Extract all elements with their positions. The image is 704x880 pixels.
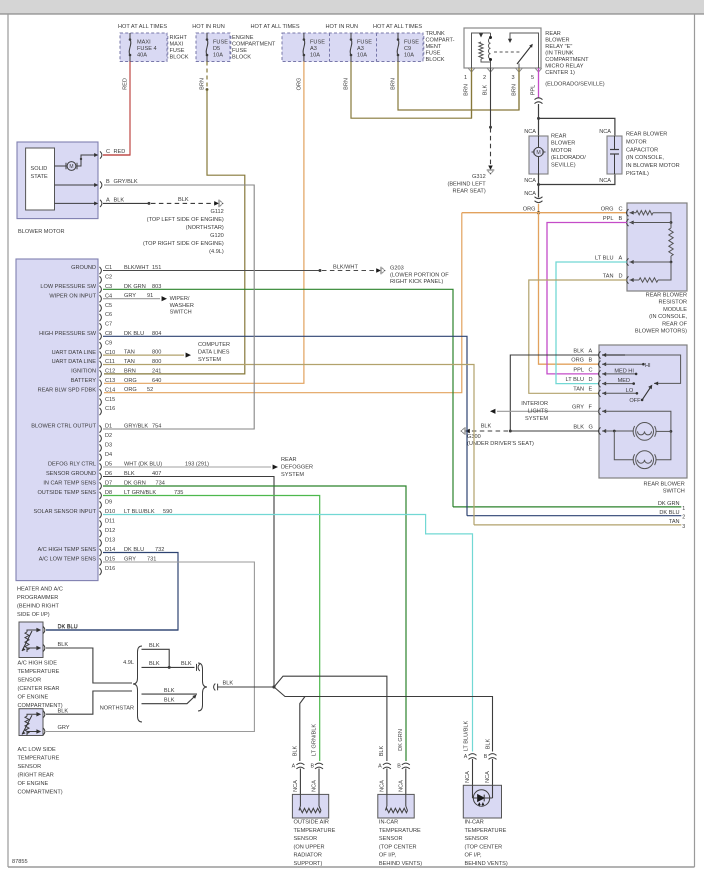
svg-text:HIGH PRESSURE SW: HIGH PRESSURE SW <box>39 331 97 337</box>
wire DK BLU C8 to connector 2 <box>103 336 467 515</box>
wire DK BLU to connector 2 <box>467 515 681 517</box>
switch pin G <box>599 427 601 434</box>
svg-text:A/C HIGH TEMP SENS: A/C HIGH TEMP SENS <box>37 547 96 553</box>
svg-text:C15: C15 <box>105 397 115 403</box>
svg-text:PPL: PPL <box>603 216 614 222</box>
svg-text:OF ENGINE: OF ENGINE <box>18 695 49 701</box>
module resistor C branch <box>630 212 637 214</box>
inline connector 4.9L <box>196 664 198 671</box>
svg-text:2: 2 <box>682 515 685 521</box>
wire TAN: module D to switch E <box>529 280 627 393</box>
svg-text:LO: LO <box>626 388 634 394</box>
motor symbol inside blower module <box>55 165 67 167</box>
svg-text:C: C <box>589 367 593 373</box>
switch pin C <box>599 370 601 377</box>
svg-text:C: C <box>106 149 110 155</box>
svg-text:RADIATOR: RADIATOR <box>294 853 322 859</box>
programmer pin C9 <box>100 342 102 349</box>
svg-text:TAN: TAN <box>603 274 614 280</box>
svg-text:PROGRAMMER: PROGRAMMER <box>17 595 58 601</box>
svg-text:DEFOG RLY CTRL: DEFOG RLY CTRL <box>48 462 96 468</box>
programmer pin D5 <box>100 463 102 470</box>
svg-text:C7: C7 <box>105 322 112 328</box>
svg-text:D3: D3 <box>105 443 112 449</box>
switch pin F <box>599 408 601 415</box>
svg-text:BRN: BRN <box>344 78 350 90</box>
svg-text:UART DATA LINE: UART DATA LINE <box>52 359 97 365</box>
wire BLK splice to in-car (solar) sensor pin B <box>274 687 493 752</box>
svg-text:NCA: NCA <box>599 129 611 135</box>
svg-text:IGNITION: IGNITION <box>71 369 96 375</box>
svg-text:NCA: NCA <box>398 780 404 792</box>
svg-text:(BEHIND LEFT: (BEHIND LEFT <box>447 182 486 188</box>
svg-text:DK BLU: DK BLU <box>58 624 78 630</box>
svg-text:3: 3 <box>511 75 514 81</box>
svg-text:NCA: NCA <box>380 780 386 792</box>
svg-text:PIGTAIL): PIGTAIL) <box>626 171 649 177</box>
wire BRN: fuse A3 (hot in run) to relay pin 1 <box>351 62 472 119</box>
svg-text:HOT AT ALL TIMES: HOT AT ALL TIMES <box>251 24 300 30</box>
module pin A <box>627 258 629 265</box>
svg-text:BATTERY: BATTERY <box>71 378 97 384</box>
programmer pin D2 <box>100 435 102 442</box>
svg-text:BLK: BLK <box>178 197 189 203</box>
svg-text:ORG: ORG <box>124 378 137 384</box>
svg-text:STATE: STATE <box>31 174 48 180</box>
svg-text:D16: D16 <box>105 566 115 572</box>
inline connector to splice, BLK <box>214 684 216 691</box>
inline connector below motor <box>535 197 543 199</box>
svg-text:BLOWER: BLOWER <box>545 38 569 44</box>
svg-text:LT BLU: LT BLU <box>566 377 584 383</box>
svg-text:BLK: BLK <box>164 697 175 703</box>
svg-text:(TOP LEFT SIDE OF ENGINE): (TOP LEFT SIDE OF ENGINE) <box>147 217 224 223</box>
svg-text:C12: C12 <box>105 369 115 375</box>
relay K1: REAR BLOWER RELAY "E" <box>464 28 541 68</box>
svg-text:LT GRN/BLK: LT GRN/BLK <box>312 724 318 756</box>
svg-text:BLK: BLK <box>149 661 160 667</box>
svg-text:GRY: GRY <box>58 725 70 731</box>
blower motor module box <box>17 142 98 219</box>
NORTHSTAR BLK branch lower merging <box>142 696 196 704</box>
svg-text:FUSE: FUSE <box>213 40 228 46</box>
wire TAN to connector 3 <box>474 524 681 526</box>
svg-text:NCA: NCA <box>465 771 471 783</box>
svg-text:BLOCK: BLOCK <box>170 55 189 61</box>
svg-text:DATA LINES: DATA LINES <box>198 350 230 356</box>
svg-text:A: A <box>292 764 296 770</box>
svg-text:G203: G203 <box>390 266 404 272</box>
svg-text:A: A <box>378 764 382 770</box>
svg-text:BLOCK: BLOCK <box>426 57 445 63</box>
wire BLK below motor, junction to capacitor bottom <box>538 174 540 198</box>
svg-text:(NORTHSTAR): (NORTHSTAR) <box>186 225 224 231</box>
svg-text:D5: D5 <box>213 46 220 52</box>
programmer pin C12 <box>100 370 102 377</box>
svg-text:BLK: BLK <box>223 680 234 686</box>
programmer pin D4 <box>100 454 102 461</box>
wire GRY D15 to A/C low side sensor <box>46 562 254 732</box>
svg-text:NCA: NCA <box>524 178 536 184</box>
svg-text:COMPARTMENT: COMPARTMENT <box>232 42 276 48</box>
svg-text:BLK: BLK <box>573 348 584 354</box>
svg-text:D13: D13 <box>105 538 115 544</box>
svg-text:DK GRN: DK GRN <box>398 729 404 751</box>
programmer pin C8 <box>100 333 102 340</box>
svg-text:BRN: BRN <box>200 78 206 90</box>
programmer pin C6 <box>100 314 102 321</box>
wire ORG: junction to resistor module pin C and down to C14 / switch B <box>539 212 628 214</box>
svg-text:C13: C13 <box>105 378 115 384</box>
svg-text:A: A <box>106 197 110 203</box>
svg-text:F: F <box>589 405 593 411</box>
fuse block 1: MAXI FUSE 4 40A (RIGHT MAXI FUSE BLOCK) <box>120 33 167 62</box>
programmer pin C7 <box>100 323 102 330</box>
svg-text:NCA: NCA <box>524 191 536 197</box>
svg-text:SENSOR GROUND: SENSOR GROUND <box>46 471 96 477</box>
programmer pin D10 <box>100 511 102 518</box>
wire BLK splice to in-car sensor pin A <box>274 676 387 761</box>
rear blower switch box <box>599 345 687 478</box>
svg-text:C16: C16 <box>105 406 115 412</box>
svg-text:241: 241 <box>152 368 161 374</box>
svg-text:B: B <box>310 764 314 770</box>
svg-text:FUSE: FUSE <box>357 40 372 46</box>
wire GRY C4 to wiper/washer switch <box>103 298 160 300</box>
switch pin A <box>599 351 601 358</box>
svg-text:(CENTER REAR: (CENTER REAR <box>18 686 60 692</box>
wire BLK high sensor to 4.9L/NORTHSTAR splice <box>46 648 132 683</box>
svg-text:SENSOR: SENSOR <box>465 836 489 842</box>
svg-text:CAPACITOR: CAPACITOR <box>626 147 658 153</box>
wire BRN relay pin 3 <box>518 68 520 110</box>
svg-text:G312: G312 <box>472 174 486 180</box>
svg-text:NCA: NCA <box>599 178 611 184</box>
wire BLK outside air sensor pin A <box>300 697 305 762</box>
svg-text:TAN: TAN <box>573 387 584 393</box>
switch pin F line to lamps node <box>602 411 671 431</box>
svg-text:TEMPERATURE: TEMPERATURE <box>18 669 60 675</box>
svg-text:(IN TRUNK: (IN TRUNK <box>545 51 573 57</box>
programmer pin D14 <box>100 549 102 556</box>
svg-text:87855: 87855 <box>12 859 28 865</box>
wire BRN: fuse D5 to programmer C12 (IGNITION) <box>206 62 208 88</box>
svg-text:GRY/BLK: GRY/BLK <box>114 179 138 185</box>
wire TAN C11 to connector 3 <box>103 365 474 525</box>
svg-text:BEHIND VENTS): BEHIND VENTS) <box>379 861 422 867</box>
wire DK GRN to connector 1 <box>453 506 681 508</box>
svg-text:NORTHSTAR: NORTHSTAR <box>100 706 134 712</box>
wire LT BLU/BLK D10 to in-car sensor (solar) <box>103 515 473 752</box>
svg-text:A/C LOW SIDE: A/C LOW SIDE <box>18 747 56 753</box>
svg-text:(TOP RIGHT SIDE OF ENGINE): (TOP RIGHT SIDE OF ENGINE) <box>143 241 224 247</box>
svg-text:RED: RED <box>123 78 129 90</box>
svg-text:FUSE: FUSE <box>426 50 441 56</box>
svg-text:A/C LOW TEMP SENS: A/C LOW TEMP SENS <box>39 557 97 563</box>
wire BLK: connector to rear blower motor, junction to capacitor <box>538 104 540 136</box>
svg-text:(ON UPPER: (ON UPPER <box>294 844 325 850</box>
svg-text:COMPUTER: COMPUTER <box>198 342 230 348</box>
svg-text:TEMPERATURE: TEMPERATURE <box>294 828 336 834</box>
svg-text:M: M <box>536 150 540 156</box>
svg-text:D4: D4 <box>105 452 112 458</box>
inline connector on pin 5 wire <box>535 98 543 100</box>
programmer pin D16 <box>100 568 102 575</box>
svg-text:A: A <box>589 348 593 354</box>
svg-text:SWITCH: SWITCH <box>663 488 685 494</box>
programmer pin D13 <box>100 539 102 546</box>
svg-text:LOW PRESSURE SW: LOW PRESSURE SW <box>40 284 96 290</box>
programmer pin C5 <box>100 305 102 312</box>
svg-text:D2: D2 <box>105 433 112 439</box>
svg-text:MOTOR: MOTOR <box>626 139 647 145</box>
svg-text:HI: HI <box>645 363 651 369</box>
switch HI contact <box>602 363 643 365</box>
svg-text:IN BLOWER MOTOR: IN BLOWER MOTOR <box>626 163 680 169</box>
svg-text:2: 2 <box>483 75 486 81</box>
svg-text:PPL: PPL <box>573 367 584 373</box>
svg-text:DK GRN: DK GRN <box>658 501 680 507</box>
svg-text:3: 3 <box>682 524 685 530</box>
svg-text:FUSE: FUSE <box>232 48 247 54</box>
wire GRY/BLK D1 to blower motor pin B <box>103 185 254 429</box>
switch pin E <box>599 390 601 397</box>
svg-text:TEMPERATURE: TEMPERATURE <box>379 828 421 834</box>
svg-text:(LOWER PORTION OF: (LOWER PORTION OF <box>390 273 449 279</box>
programmer pin D12 <box>100 530 102 537</box>
svg-text:1: 1 <box>464 75 467 81</box>
svg-text:OUTSIDE AIR: OUTSIDE AIR <box>294 820 329 826</box>
programmer pin C14 <box>100 389 102 396</box>
svg-text:INTERIOR: INTERIOR <box>521 401 548 407</box>
wire BLK dashed to ground G300 <box>469 430 508 432</box>
in-car temperature sensor (solar / aspirator) <box>469 754 477 756</box>
fuse F5 C9 10A <box>397 33 399 40</box>
svg-text:M: M <box>69 164 73 170</box>
svg-text:BLK: BLK <box>114 197 125 203</box>
svg-text:D11: D11 <box>105 519 115 525</box>
svg-text:CENTER 1): CENTER 1) <box>545 70 575 76</box>
svg-text:DEFOGGER: DEFOGGER <box>281 465 313 471</box>
programmer pin D7 <box>100 482 102 489</box>
svg-text:C6: C6 <box>105 312 112 318</box>
svg-text:IN-CAR: IN-CAR <box>465 820 484 826</box>
svg-text:REAR OF: REAR OF <box>662 321 687 327</box>
blower motor pin B <box>55 184 97 186</box>
wire DK BLU D14 to A/C high side sensor <box>46 553 178 631</box>
svg-text:GROUND: GROUND <box>71 265 96 271</box>
svg-text:OF I/P,: OF I/P, <box>465 853 482 859</box>
svg-text:RELAY "E": RELAY "E" <box>545 44 572 50</box>
wire BRN: fuse C9 to relay pin 3 <box>398 62 519 111</box>
engine variant brace left <box>133 646 142 722</box>
svg-text:REAR BLOWER: REAR BLOWER <box>646 293 687 299</box>
programmer pin D11 <box>100 520 102 527</box>
switch pin G line <box>602 430 634 432</box>
svg-text:BLK: BLK <box>149 643 160 649</box>
svg-text:D: D <box>589 377 593 383</box>
svg-text:A/C HIGH SIDE: A/C HIGH SIDE <box>18 661 58 667</box>
svg-text:MED: MED <box>618 378 630 384</box>
svg-text:COMPARTMENT: COMPARTMENT <box>545 57 589 63</box>
svg-text:BLK: BLK <box>573 424 584 430</box>
svg-text:REAR SEAT): REAR SEAT) <box>453 189 486 195</box>
svg-text:SYSTEM: SYSTEM <box>198 357 221 363</box>
svg-text:HOT IN RUN: HOT IN RUN <box>192 24 225 30</box>
svg-text:A: A <box>619 256 623 262</box>
svg-text:NCA: NCA <box>293 780 299 792</box>
svg-text:BLK: BLK <box>485 738 491 749</box>
svg-text:D: D <box>619 274 623 280</box>
svg-text:BLK: BLK <box>58 708 69 714</box>
svg-text:B: B <box>484 754 488 760</box>
programmer pin D1 <box>100 425 102 432</box>
svg-text:(IN CONSOLE,: (IN CONSOLE, <box>626 155 664 161</box>
svg-text:TAN: TAN <box>669 519 680 525</box>
svg-text:BLOWER: BLOWER <box>551 141 575 147</box>
svg-text:G112: G112 <box>211 209 224 215</box>
svg-text:PPL: PPL <box>531 85 537 96</box>
svg-text:BLK: BLK <box>483 84 489 95</box>
splice S2: sensor ground junction <box>272 685 275 688</box>
switch MED contact <box>602 383 634 385</box>
svg-text:WIPER ON INPUT: WIPER ON INPUT <box>49 293 96 299</box>
svg-text:G: G <box>589 424 593 430</box>
svg-text:OF ENGINE: OF ENGINE <box>18 781 49 787</box>
svg-text:MENT: MENT <box>426 44 442 50</box>
svg-text:REAR BLW SPD FDBK: REAR BLW SPD FDBK <box>38 387 97 393</box>
svg-text:(ELDORADO/: (ELDORADO/ <box>551 155 586 161</box>
wire BLK/WHT C1 to ground G203 <box>103 270 320 272</box>
fuse F4 A3 10A <box>350 33 352 40</box>
svg-text:TRUNK: TRUNK <box>426 31 446 37</box>
svg-text:BLOCK: BLOCK <box>232 55 251 61</box>
illumination lamp 2 <box>614 431 634 460</box>
wire DK GRN C3 to connector 1 <box>103 289 453 507</box>
svg-text:BLK: BLK <box>293 745 299 756</box>
svg-text:IN CAR TEMP SENS: IN CAR TEMP SENS <box>43 481 96 487</box>
svg-text:BRN: BRN <box>512 84 518 96</box>
programmer pin D3 <box>100 444 102 451</box>
ground G112/G120 <box>214 201 219 206</box>
switch LO contact <box>602 392 637 394</box>
svg-text:(ELDORADO/SEVILLE): (ELDORADO/SEVILLE) <box>545 82 605 88</box>
fuse block 2: FUSE D5 10A (ENGINE COMPARTMENT FUSE BLOCK) <box>196 33 230 62</box>
svg-text:D12: D12 <box>105 528 115 534</box>
relay pin chevrons and numbers 1 2 3 5 <box>468 68 474 72</box>
module resistor D branch <box>630 279 640 281</box>
programmer pin D6 <box>100 473 102 480</box>
outside air temperature sensor <box>296 763 304 765</box>
wire ORG from connector to junction <box>538 204 540 213</box>
svg-text:REAR BLOWER: REAR BLOWER <box>643 482 684 488</box>
svg-text:640: 640 <box>152 378 161 384</box>
svg-text:UART DATA LINE: UART DATA LINE <box>52 350 97 356</box>
svg-text:FUSE: FUSE <box>170 48 185 54</box>
module pin B <box>627 219 629 226</box>
svg-text:(UNDER DRIVER'S SEAT): (UNDER DRIVER'S SEAT) <box>467 441 534 447</box>
switch feed line from pin A <box>602 355 681 383</box>
fuse block 3-5: trunk compartment fuse block (FUSE A3, FUSE A3, FUSE C9) <box>282 33 423 62</box>
wire BLK pin A to ground G112/G120 <box>103 202 149 204</box>
svg-text:TEMPERATURE: TEMPERATURE <box>18 756 60 762</box>
svg-text:LIGHTS: LIGHTS <box>528 409 548 415</box>
svg-text:SENSOR: SENSOR <box>294 836 318 842</box>
A/C high side temperature sensor <box>19 622 43 658</box>
blower motor pin A <box>55 202 97 204</box>
svg-text:(RIGHT REAR: (RIGHT REAR <box>18 773 54 779</box>
svg-text:40A: 40A <box>137 53 147 59</box>
svg-text:ORG: ORG <box>601 206 614 212</box>
svg-text:C: C <box>619 206 623 212</box>
wire BRN relay pin 1 <box>471 68 473 118</box>
svg-text:SENSOR: SENSOR <box>18 678 42 684</box>
module A line <box>630 261 672 263</box>
in-car temperature sensor <box>383 763 391 765</box>
module resistor vertical <box>670 221 673 224</box>
svg-text:A: A <box>464 754 468 760</box>
svg-text:SENSOR: SENSOR <box>379 836 403 842</box>
wire BLK: switch pin A to G300 net <box>510 355 598 431</box>
svg-text:LT BLU/BLK: LT BLU/BLK <box>464 720 470 751</box>
svg-text:RIGHT: RIGHT <box>170 35 188 41</box>
4.9L BLK branch upper <box>142 649 170 667</box>
NORTHSTAR BLK branch upper <box>142 693 198 695</box>
wire DK BLU lead <box>46 629 178 631</box>
svg-text:REAR BLOWER: REAR BLOWER <box>626 132 667 138</box>
switch MED HI contact <box>602 373 636 375</box>
svg-text:TEMPERATURE: TEMPERATURE <box>465 828 507 834</box>
svg-text:SYSTEM: SYSTEM <box>281 472 304 478</box>
svg-text:FUSE: FUSE <box>404 40 419 46</box>
svg-text:(TOP CENTER: (TOP CENTER <box>465 844 503 850</box>
svg-text:B: B <box>589 358 593 364</box>
svg-text:10A: 10A <box>404 53 414 59</box>
svg-text:HOT AT ALL TIMES: HOT AT ALL TIMES <box>118 24 167 30</box>
svg-text:MICRO RELAY: MICRO RELAY <box>545 64 583 70</box>
wire PPL: module B to switch C <box>547 223 627 374</box>
svg-text:REAR: REAR <box>551 134 567 140</box>
svg-text:NCA: NCA <box>485 771 491 783</box>
svg-text:10A: 10A <box>357 53 367 59</box>
fuse F3 A3 10A <box>303 33 305 40</box>
wire LT BLU: module A to switch D <box>556 262 627 384</box>
svg-text:SIDE OF I/P): SIDE OF I/P) <box>17 612 50 618</box>
svg-text:OUTSIDE TEMP SENS: OUTSIDE TEMP SENS <box>37 490 96 496</box>
svg-text:G120: G120 <box>210 233 224 239</box>
svg-text:NCA: NCA <box>312 780 318 792</box>
svg-text:(BEHIND RIGHT: (BEHIND RIGHT <box>17 604 60 610</box>
svg-text:BEHIND VENTS): BEHIND VENTS) <box>465 861 508 867</box>
svg-text:OFF: OFF <box>629 398 641 404</box>
svg-text:SEVILLE): SEVILLE) <box>551 162 576 168</box>
A/C low side temperature sensor <box>19 709 43 736</box>
programmer pin C13 <box>100 380 102 387</box>
svg-text:10A: 10A <box>310 53 320 59</box>
svg-text:HOT IN RUN: HOT IN RUN <box>326 24 359 30</box>
module pin C <box>627 209 629 216</box>
svg-text:BLK: BLK <box>481 424 492 430</box>
svg-text:REAR: REAR <box>281 457 297 463</box>
photo sensor symbol <box>473 790 489 806</box>
wire GRY: switch pin F to interior lights system <box>497 410 599 412</box>
svg-text:C5: C5 <box>105 303 112 309</box>
svg-text:SOLAR SENSOR INPUT: SOLAR SENSOR INPUT <box>34 509 97 515</box>
svg-text:SENSOR: SENSOR <box>18 764 42 770</box>
svg-text:COMPART-: COMPART- <box>426 37 455 43</box>
svg-text:ORG: ORG <box>571 358 584 364</box>
svg-text:WIPER/: WIPER/ <box>170 296 190 302</box>
